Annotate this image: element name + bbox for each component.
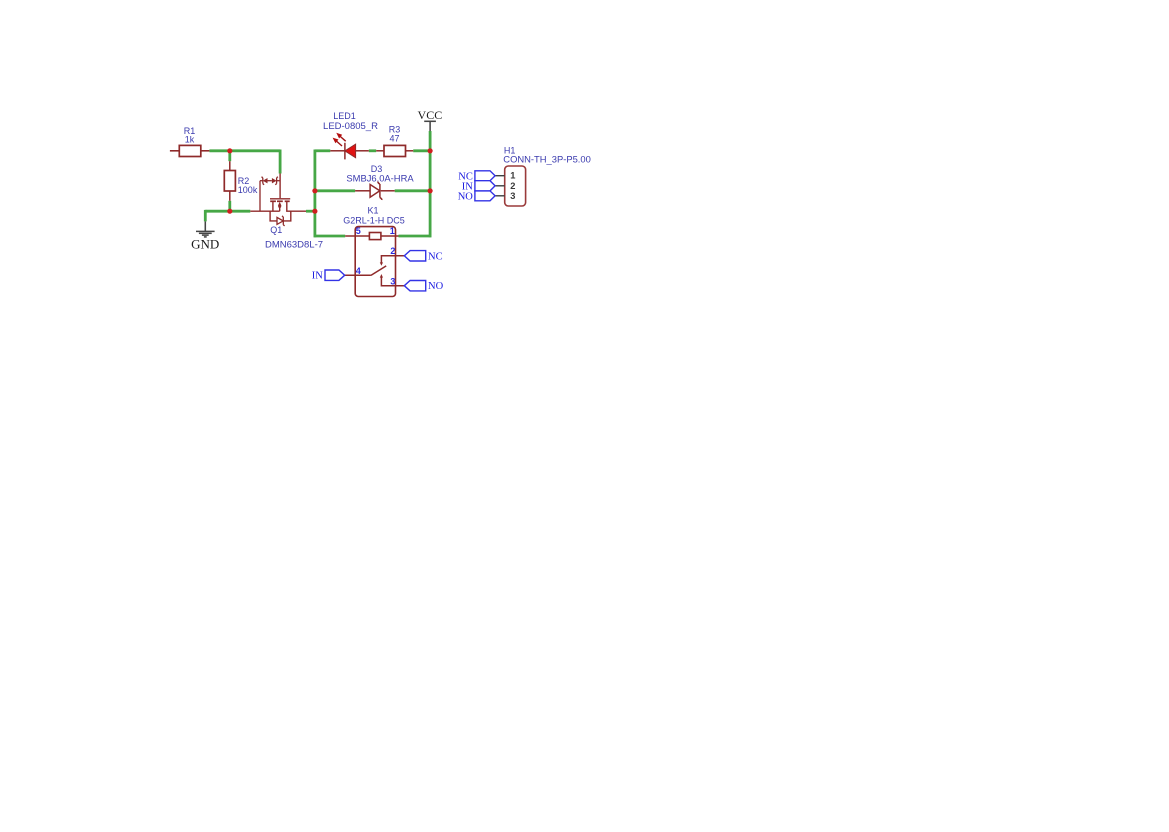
wire GND drop <box>204 210 207 222</box>
junction mid column / drain <box>312 209 317 214</box>
LED arrows <box>333 133 346 146</box>
H1 pin names <box>510 171 515 201</box>
svg-text:LED-0805_R: LED-0805_R <box>323 121 378 132</box>
H1 pin leads <box>495 176 505 196</box>
resistor R1 <box>170 145 210 156</box>
junction R2/GND/source <box>227 209 232 214</box>
svg-text:100k: 100k <box>238 185 258 195</box>
port NO <box>404 281 425 291</box>
svg-text:K1: K1 <box>367 206 378 216</box>
wire LED anode to R3 <box>369 149 376 152</box>
ESD diode pair <box>260 177 280 212</box>
source pin + left stub <box>250 210 279 212</box>
body diode loop <box>270 211 277 221</box>
body branch <box>279 206 281 211</box>
body diode <box>277 216 285 226</box>
junction VCC / D3 <box>428 188 433 193</box>
diode D3 <box>355 182 395 200</box>
pin 3 lead + NO contact <box>381 277 404 286</box>
svg-text:3: 3 <box>510 191 515 201</box>
gate bar <box>270 198 290 200</box>
svg-text:47: 47 <box>389 133 399 143</box>
channel dashes <box>270 200 290 202</box>
svg-text:2: 2 <box>390 246 395 256</box>
pin 4 lead <box>345 274 371 276</box>
wire gate vertical drop <box>279 150 282 174</box>
wire net gate row: R1 output to gate corner <box>209 149 280 152</box>
svg-text:NO: NO <box>428 281 444 292</box>
relay pin numbers <box>356 226 396 287</box>
LED LED1 <box>330 143 369 160</box>
svg-text:GND: GND <box>191 237 219 252</box>
wire LED row left <box>315 149 330 152</box>
wire relay coil row right <box>399 235 432 238</box>
svg-text:LED1: LED1 <box>333 111 356 121</box>
svg-text:IN: IN <box>312 271 323 282</box>
wire GND row <box>205 210 250 213</box>
svg-text:G2RL-1-H DC5: G2RL-1-H DC5 <box>343 215 405 225</box>
port NO at H1 <box>475 191 495 201</box>
resistor R2 <box>224 161 235 201</box>
pin 2 lead + NC contact <box>381 256 404 263</box>
wire R3 to VCC rail <box>413 149 430 152</box>
transistor Q1 <box>250 174 306 221</box>
svg-text:1k: 1k <box>185 135 195 145</box>
drain stub and pin <box>287 201 306 211</box>
svg-text:NC: NC <box>428 251 443 262</box>
svg-text:5: 5 <box>356 226 361 236</box>
svg-text:1: 1 <box>510 171 515 181</box>
blade <box>371 266 386 276</box>
wire mid column vertical <box>313 150 316 238</box>
junction R1/R2/gate <box>227 148 232 153</box>
svg-text:1: 1 <box>390 226 395 236</box>
relay contacts <box>345 256 405 286</box>
junction mid column / D3 <box>312 188 317 193</box>
wire R2 top <box>228 151 231 161</box>
port NC <box>404 251 425 261</box>
port NC at H1 <box>475 171 495 181</box>
svg-text:DMN63D8L-7: DMN63D8L-7 <box>265 240 323 251</box>
svg-text:NO: NO <box>458 191 474 202</box>
port IN <box>325 270 345 280</box>
gate lead <box>279 174 281 199</box>
svg-text:Q1: Q1 <box>270 225 282 235</box>
ground <box>196 221 215 237</box>
relay K1 box <box>355 227 395 297</box>
junction VCC / R3 <box>428 148 433 153</box>
relay coil <box>345 233 398 240</box>
wire D3 row left <box>315 189 355 192</box>
port IN at H1 <box>475 181 495 191</box>
svg-text:2: 2 <box>510 181 515 191</box>
body arrow head <box>278 202 282 206</box>
svg-text:SMBJ6.0A-HRA: SMBJ6.0A-HRA <box>346 172 414 183</box>
wire drain to mid column <box>306 210 315 213</box>
wire R2 bottom <box>228 201 231 211</box>
svg-text:VCC: VCC <box>418 108 443 122</box>
power VCC <box>424 121 436 131</box>
wire relay coil row left <box>314 235 346 238</box>
svg-text:4: 4 <box>356 266 361 276</box>
wire D3 row right <box>395 189 430 192</box>
resistor R3 <box>376 145 413 156</box>
wire VCC rail vertical <box>429 131 432 237</box>
svg-text:3: 3 <box>390 277 395 287</box>
connector H1 box <box>505 166 526 206</box>
svg-text:CONN-TH_3P-P5.00: CONN-TH_3P-P5.00 <box>503 153 591 164</box>
